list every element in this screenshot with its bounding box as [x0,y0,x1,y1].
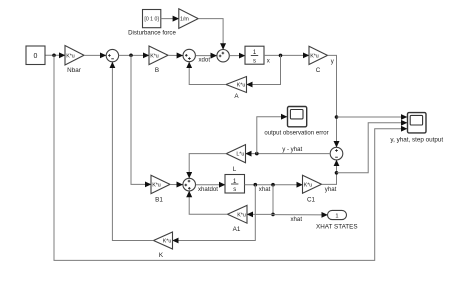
wire: A1 output up into sum4 bottom [189,191,227,214]
svg-text:s: s [233,187,236,193]
wire: sum4 to observer integrator, label xhatdot [196,184,225,186]
node xhat a [254,183,258,187]
svg-text:C: C [316,67,321,74]
svg-text:y - yhat: y - yhat [282,146,302,153]
gain L (left pointing) [226,145,245,173]
wire: reference branch bottom loop to scope input 3 [54,55,407,260]
gain C1 [303,175,322,203]
wire: xhat b down to A1 row [272,185,274,215]
svg-text:A1: A1 [233,226,241,233]
svg-text:K*u: K*u [152,183,161,189]
svg-text:Nbar: Nbar [67,67,81,74]
wire: B1 to sum4 [170,184,183,186]
constant block "0" [26,46,45,65]
node x state [279,54,283,58]
svg-text:K*u: K*u [304,182,313,188]
outport 1 XHAT STATES [316,210,358,230]
wire: B to sum2 [168,54,183,56]
svg-text:K*u: K*u [150,53,159,59]
svg-text:xhatdot: xhatdot [198,186,218,193]
svg-text:L*u: L*u [236,152,244,158]
integrator block 1/s (plant) [245,46,264,64]
svg-text:K*u: K*u [66,53,75,59]
wire: sum2 to sum3, label xdot [196,55,217,57]
wire: branch down to gain B1 [131,55,151,184]
gain B1 [151,175,170,203]
wire: sum3 to integrator [229,55,245,57]
wire: C1 yhat up into sum5 bottom [322,160,337,184]
node xhat b [271,183,275,187]
wire: disturbance to 1/m [161,18,179,20]
wire: L output down into sum4 top [189,154,226,179]
svg-text:B1: B1 [155,196,163,203]
sum junction S2 (+ +) [183,49,195,61]
svg-text:xdot: xdot [199,57,211,64]
wire: observer integrator to gain C1 with nodes, label xhat [245,184,303,186]
wire: K output up into sum1 bottom [112,62,153,241]
svg-text:xhat: xhat [259,186,271,193]
svg-text:s: s [253,59,256,65]
node y-yhat [255,152,259,156]
wire: xhat a down to gain K [173,185,256,241]
gain 1/m [179,9,198,29]
wire: sum1 to gain B with branch node [119,54,149,56]
wire: C output y down to sum5 top [328,55,337,147]
sum junction S4 (+ + +) [183,178,196,191]
wire: yhat to scope input 2 [337,123,408,173]
svg-text:x: x [267,57,270,64]
wire: sum5 output y-yhat to gain L with branch node [246,153,331,155]
svg-text:output observation error: output observation error [264,131,328,137]
svg-text:y, yhat, step output: y, yhat, step output [390,137,443,144]
gain C [309,46,328,74]
integrator block 1/s (observer) [225,175,245,194]
node yhat [335,171,339,175]
svg-text:XHAT STATES: XHAT STATES [316,223,358,230]
node after constant 0 [52,54,56,58]
svg-text:K*u: K*u [163,239,172,245]
constant block [0 1 0] Disturbance force [128,10,176,37]
svg-text:B: B [155,67,159,74]
svg-text:K*u: K*u [310,53,319,59]
wire: integrator to gain C with branch node, label x [264,54,309,56]
svg-text:xhat: xhat [291,216,303,223]
wire: 1/m down into sum3 top [198,19,223,50]
svg-text:Disturbance force: Disturbance force [128,29,176,36]
wire: node to A1 input [247,213,273,215]
wire: constant 0 to sum1 with branch node [45,54,65,56]
svg-text:L: L [233,166,237,173]
svg-text:1: 1 [335,214,338,220]
wire: y-yhat up to scope1 [257,117,287,154]
svg-text:yhat: yhat [325,186,337,193]
gain Nbar [65,46,84,75]
sum junction S5 (+ top, - bottom) [330,147,343,160]
wire: Nbar to sum1 [84,54,106,56]
node after sum1 [129,54,133,58]
scope y, yhat, step output [390,113,443,144]
gain A (left pointing) [226,77,247,101]
wire: A output up into sum2 bottom [189,62,226,85]
svg-text:K*u: K*u [237,83,246,89]
scope output observation error [264,107,328,137]
svg-text:1/m: 1/m [180,17,189,23]
svg-text:0: 0 [34,53,38,60]
svg-text:K*u: K*u [237,212,246,218]
svg-text:[0 1 0]: [0 1 0] [144,17,159,23]
node A1 row [271,213,275,217]
gain A1 (left pointing) [228,205,248,233]
node y [335,115,339,119]
svg-text:C1: C1 [307,196,316,203]
sum junction S1 (+ -) [106,49,118,61]
gain K (left pointing) [154,232,173,259]
wire: xhat to outport, label xhat [273,214,328,216]
wire: y to scope input 1 [337,116,408,118]
sum junction S3 (+ top, + left) [217,50,229,62]
wire: x feedback down to gain A [247,55,281,84]
gain B [149,46,168,74]
